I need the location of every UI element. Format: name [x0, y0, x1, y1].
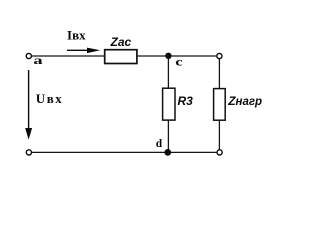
- node d: [164, 149, 171, 156]
- terminal top-right: [217, 53, 222, 58]
- wire: resistor R3 down to node d: [167, 120, 169, 152]
- terminal bottom-right: [217, 150, 222, 155]
- current arrow Ivx: [67, 48, 100, 54]
- svg-text:Zнагр: Zнагр: [227, 94, 262, 108]
- wire bottom: node d to bottom-right terminal: [168, 151, 217, 153]
- wire: node c down to resistor R3: [167, 56, 169, 88]
- voltage arrow Uvx: [25, 70, 32, 140]
- terminal bottom-left: [26, 150, 31, 155]
- svg-text:c: c: [175, 55, 183, 69]
- svg-text:Uвх: Uвх: [36, 91, 63, 106]
- wire top: node c to top-right terminal: [168, 55, 216, 57]
- node c: [165, 53, 171, 59]
- svg-text:Zac: Zac: [110, 35, 132, 49]
- impedance Znagr: [214, 89, 226, 121]
- wire top: Zac box to node c: [137, 55, 169, 57]
- wire: Znagr down to bottom-right terminal: [218, 120, 220, 149]
- svg-text:d: d: [156, 136, 163, 150]
- resistor R3: [163, 88, 175, 120]
- wire top: terminal a to Zac box: [32, 55, 105, 57]
- wire bottom: bottom-left terminal to node d: [32, 151, 168, 153]
- svg-text:a: a: [33, 53, 42, 67]
- svg-text:Iвх: Iвх: [67, 27, 86, 42]
- wire: top-right terminal down to Znagr: [218, 59, 220, 89]
- svg-text:R3: R3: [178, 94, 194, 108]
- impedance Zac: [105, 50, 137, 64]
- terminal a (top-left): [26, 53, 31, 58]
